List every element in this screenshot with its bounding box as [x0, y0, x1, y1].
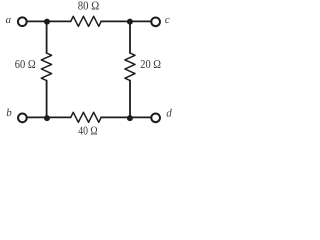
svg-text:d: d [166, 108, 172, 120]
wire bottom node to d [101, 116, 151, 118]
node dot top-left [44, 19, 50, 25]
resistor R-right 20ohm [125, 53, 135, 81]
terminal c [151, 17, 160, 26]
wire right branch lower [129, 81, 131, 119]
svg-text:40 Ω: 40 Ω [78, 124, 97, 138]
resistor R-bottom 40ohm [71, 112, 101, 122]
terminal a [18, 17, 27, 26]
svg-text:80 Ω: 80 Ω [78, 0, 99, 13]
svg-text:a: a [6, 14, 12, 26]
wire left branch lower [46, 81, 48, 119]
node dot bottom-left [44, 115, 50, 121]
wire top node to c [101, 20, 151, 22]
wire left branch upper [46, 21, 48, 53]
terminal b [18, 114, 27, 123]
wire a to top-left node [27, 20, 71, 22]
node dot top-right [127, 19, 133, 25]
wire right branch upper [129, 21, 131, 53]
svg-text:20 Ω: 20 Ω [140, 57, 161, 71]
wire b to bottom-left node [27, 116, 71, 118]
svg-text:b: b [6, 107, 12, 119]
resistor R-top 80ohm [71, 16, 101, 26]
node dot bottom-right [127, 115, 133, 121]
terminal d [151, 113, 160, 122]
svg-text:60 Ω: 60 Ω [15, 57, 36, 71]
resistor R-left 60ohm [41, 53, 51, 81]
svg-text:c: c [165, 14, 170, 26]
